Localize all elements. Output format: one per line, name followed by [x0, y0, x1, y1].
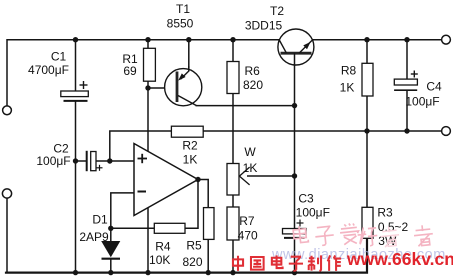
junction minus input / D1 / R4 [108, 226, 113, 231]
wire op-amp minus input [111, 193, 134, 228]
wire op-amp output to R5 [198, 180, 208, 208]
wire R4 left lead to minus node [111, 227, 155, 229]
capacitor C1 polarity plus [80, 81, 88, 89]
label C3 [298, 192, 314, 206]
svg-text:W: W [244, 145, 256, 159]
value 4700uF [28, 63, 69, 77]
junction ground rail / R5 [206, 270, 211, 275]
watermark pink char zhe2 [380, 226, 400, 248]
wire R5 bottom lead [207, 239, 209, 272]
junction feedback rail / R8 R3 [364, 128, 369, 133]
wire bottom ground rail [6, 238, 367, 272]
wire T1 emitter lead from top rail [188, 40, 190, 71]
watermark red char zhi [308, 255, 321, 270]
wire C2 node riser to feedback rail [110, 131, 442, 161]
svg-text:470: 470 [238, 228, 258, 242]
wire R3 top lead [366, 131, 368, 207]
wire C3 bottom lead [294, 239, 296, 273]
wire R8 top lead [366, 40, 368, 64]
label C4 [426, 80, 442, 94]
value 8550 [167, 17, 194, 31]
capacitor C3 negative plate [284, 237, 305, 239]
junction op-amp output node [195, 177, 200, 182]
capacitor C4 negative plate [394, 89, 417, 91]
svg-text:1K: 1K [243, 161, 258, 175]
wire T1 collector to T2 base node [196, 105, 295, 107]
wire C1 column upper [75, 40, 77, 91]
svg-text:3DD15: 3DD15 [245, 18, 283, 32]
capacitor C1 negative plate [64, 100, 88, 102]
potentiometer W wiper arrow [239, 167, 249, 185]
terminal output upper [442, 35, 451, 44]
junction W wiper / C3 column [292, 173, 297, 178]
junction ground rail / D1 [108, 270, 113, 275]
resistor R5 [204, 208, 215, 240]
svg-text:R7: R7 [239, 214, 255, 228]
transistor T2 collector lead [279, 40, 286, 53]
value 10K [149, 253, 170, 267]
junction ground rail / C3 [292, 270, 297, 275]
value 820 R5 [182, 255, 202, 269]
capacitor C2 positive plate [91, 152, 96, 171]
svg-text:1K: 1K [340, 81, 355, 95]
junction top rail / T1 emitter [186, 37, 191, 42]
transistor T1 collector lead [178, 96, 197, 106]
svg-text:4700μF: 4700μF [28, 63, 69, 77]
value 1K R8 [340, 81, 355, 95]
svg-text:T1: T1 [176, 2, 190, 16]
label C2 [53, 142, 69, 156]
junction top rail / R1 [145, 37, 150, 42]
capacitor C3 positive plate [283, 229, 307, 234]
svg-text:100μF: 100μF [405, 95, 439, 109]
resistor R6 [227, 62, 239, 94]
junction T2 base / T1 collector [292, 103, 297, 108]
value 69 [123, 64, 137, 78]
watermark red char zuo [328, 255, 341, 270]
capacitor C1 positive plate [61, 91, 89, 97]
resistor R2 [171, 126, 203, 137]
wire R8 bottom lead [366, 96, 368, 131]
value 2AP9 [79, 230, 109, 244]
label R4 [155, 239, 171, 253]
resistor R8 [362, 63, 373, 96]
value 100uF C2 [36, 154, 70, 168]
resistor R1 [144, 48, 156, 81]
junction feedback rail / C4 [404, 128, 409, 133]
resistor R3 [362, 207, 373, 238]
svg-text:2AP9: 2AP9 [79, 230, 109, 244]
label R8 [341, 64, 357, 78]
wire R7 bottom lead to ground rail [232, 240, 234, 273]
watermark pink char zhe [413, 224, 434, 246]
wire C2 right lead to op-amp plus input [96, 160, 134, 162]
label R2 [182, 139, 198, 153]
junction ground rail / C1 [73, 270, 78, 275]
op-amp plus input sign [138, 154, 148, 163]
svg-text:R3: R3 [377, 205, 393, 219]
diode D1 cathode bar [102, 258, 121, 260]
transistor T1 emitter with arrow (PNP) [178, 66, 189, 81]
watermark red char dian2 [272, 255, 283, 268]
wire R6 bottom lead to potentiometer W [232, 94, 234, 164]
junction C2 right node [107, 158, 112, 163]
wire W bottom lead to R7 [232, 195, 234, 207]
wire W wiper to T2 base column [247, 175, 295, 177]
svg-text:T2: T2 [270, 4, 284, 18]
junction top rail / R6 [230, 37, 235, 42]
resistor R7 [227, 207, 239, 240]
transistor T1 base bar [176, 72, 179, 103]
label R1 [122, 52, 138, 66]
value 100uF C3 [296, 205, 330, 219]
svg-text:R2: R2 [182, 139, 198, 153]
wire C1 column lower [75, 101, 77, 273]
capacitor C4 positive plate [394, 79, 417, 85]
wire C4 top lead [406, 40, 408, 80]
junction ground rail / R7 [230, 270, 235, 275]
svg-text:C1: C1 [51, 50, 67, 64]
watermark pink char hao [357, 226, 378, 247]
svg-text:R5: R5 [186, 239, 202, 253]
terminal input lower [2, 189, 11, 198]
svg-text:D1: D1 [92, 212, 108, 226]
wire top rail [7, 40, 442, 106]
svg-text:C4: C4 [426, 80, 442, 94]
capacitor C2 negative plate [86, 151, 88, 171]
wire C2 left lead [76, 160, 87, 162]
transistor T2 base lead inside body [294, 53, 296, 66]
label W [244, 145, 256, 159]
capacitor C4 polarity plus [411, 71, 418, 78]
junction R1 bottom / T1 base [145, 85, 150, 90]
svg-text:C3: C3 [298, 192, 314, 206]
value 3W [378, 234, 397, 248]
wire left input column lower [6, 198, 8, 271]
wire T1 base lead [148, 87, 177, 89]
junction top rail / R8 [364, 37, 369, 42]
wire R1 bottom lead and op-amp V+ pin [147, 81, 149, 151]
wire D1 anode lead [110, 228, 112, 241]
op-amp minus input sign [138, 191, 147, 193]
wire R1 top lead [147, 40, 149, 48]
terminal output lower [442, 127, 451, 136]
wire T2 base column down through C3 [294, 54, 296, 229]
label D1 [92, 212, 108, 226]
wire D1 cathode lead [110, 260, 112, 273]
terminal input upper [3, 106, 12, 115]
watermark pink char zi [314, 226, 334, 246]
wire op-amp V-minus pin to ground [147, 208, 149, 273]
watermark pink char dian [293, 225, 309, 243]
svg-text:69: 69 [123, 64, 137, 78]
svg-text:100μF: 100μF [36, 154, 70, 168]
svg-text:10K: 10K [149, 253, 170, 267]
label T2 [270, 4, 284, 18]
transistor T2 base bar [281, 52, 312, 55]
label R7 [239, 214, 255, 228]
svg-text:1K: 1K [183, 152, 198, 166]
watermark red char zi2 [289, 257, 303, 271]
label R6 [245, 64, 261, 78]
label T1 [176, 2, 190, 16]
value 820 R6 [243, 78, 263, 92]
potentiometer W body [227, 164, 239, 196]
watermark pink char ai [339, 223, 360, 245]
svg-text:www.66kv.cn: www.66kv.cn [346, 249, 453, 269]
junction ground rail / op-amp V-minus [145, 270, 150, 275]
transistor T2 body [278, 29, 314, 65]
transistor T2 emitter with arrow (NPN) [299, 40, 312, 53]
resistor R4 [154, 223, 185, 233]
value 0.5~2 [378, 220, 409, 234]
label R5 [186, 239, 202, 253]
wire op-amp output down to R4 right lead [185, 180, 198, 229]
op-amp U1 triangle [134, 144, 198, 216]
value 3DD15 [245, 18, 283, 32]
svg-text:R8: R8 [341, 64, 357, 78]
value 1K R2 [183, 152, 198, 166]
svg-text:R4: R4 [155, 239, 171, 253]
junction top rail / C1 [73, 37, 78, 42]
svg-text:100μF: 100μF [296, 205, 330, 219]
junction top rail / C4 [404, 37, 409, 42]
junction C1 column / C2 left [73, 158, 78, 163]
transistor T1 body [165, 69, 202, 106]
wire C4 bottom lead [406, 90, 408, 131]
capacitor C3 polarity plus [297, 220, 304, 227]
svg-text:820: 820 [243, 78, 263, 92]
svg-text:820: 820 [182, 255, 202, 269]
watermark red char guo [251, 257, 264, 270]
value 1K W [243, 161, 258, 175]
watermark red url www.66kv.cn [346, 249, 453, 269]
value 100uF C4 [405, 95, 439, 109]
wire R6 top lead [232, 40, 234, 62]
svg-text:R6: R6 [245, 64, 261, 78]
capacitor C2 polarity plus [97, 165, 103, 171]
svg-text:8550: 8550 [167, 17, 194, 31]
diode D1 anode triangle [101, 241, 120, 257]
label C1 [51, 50, 67, 64]
watermark blue url www.dianziaihaozhe.com [271, 247, 446, 263]
label R3 [377, 205, 393, 219]
watermark red char zhong [233, 256, 243, 271]
value 470 [238, 228, 258, 242]
